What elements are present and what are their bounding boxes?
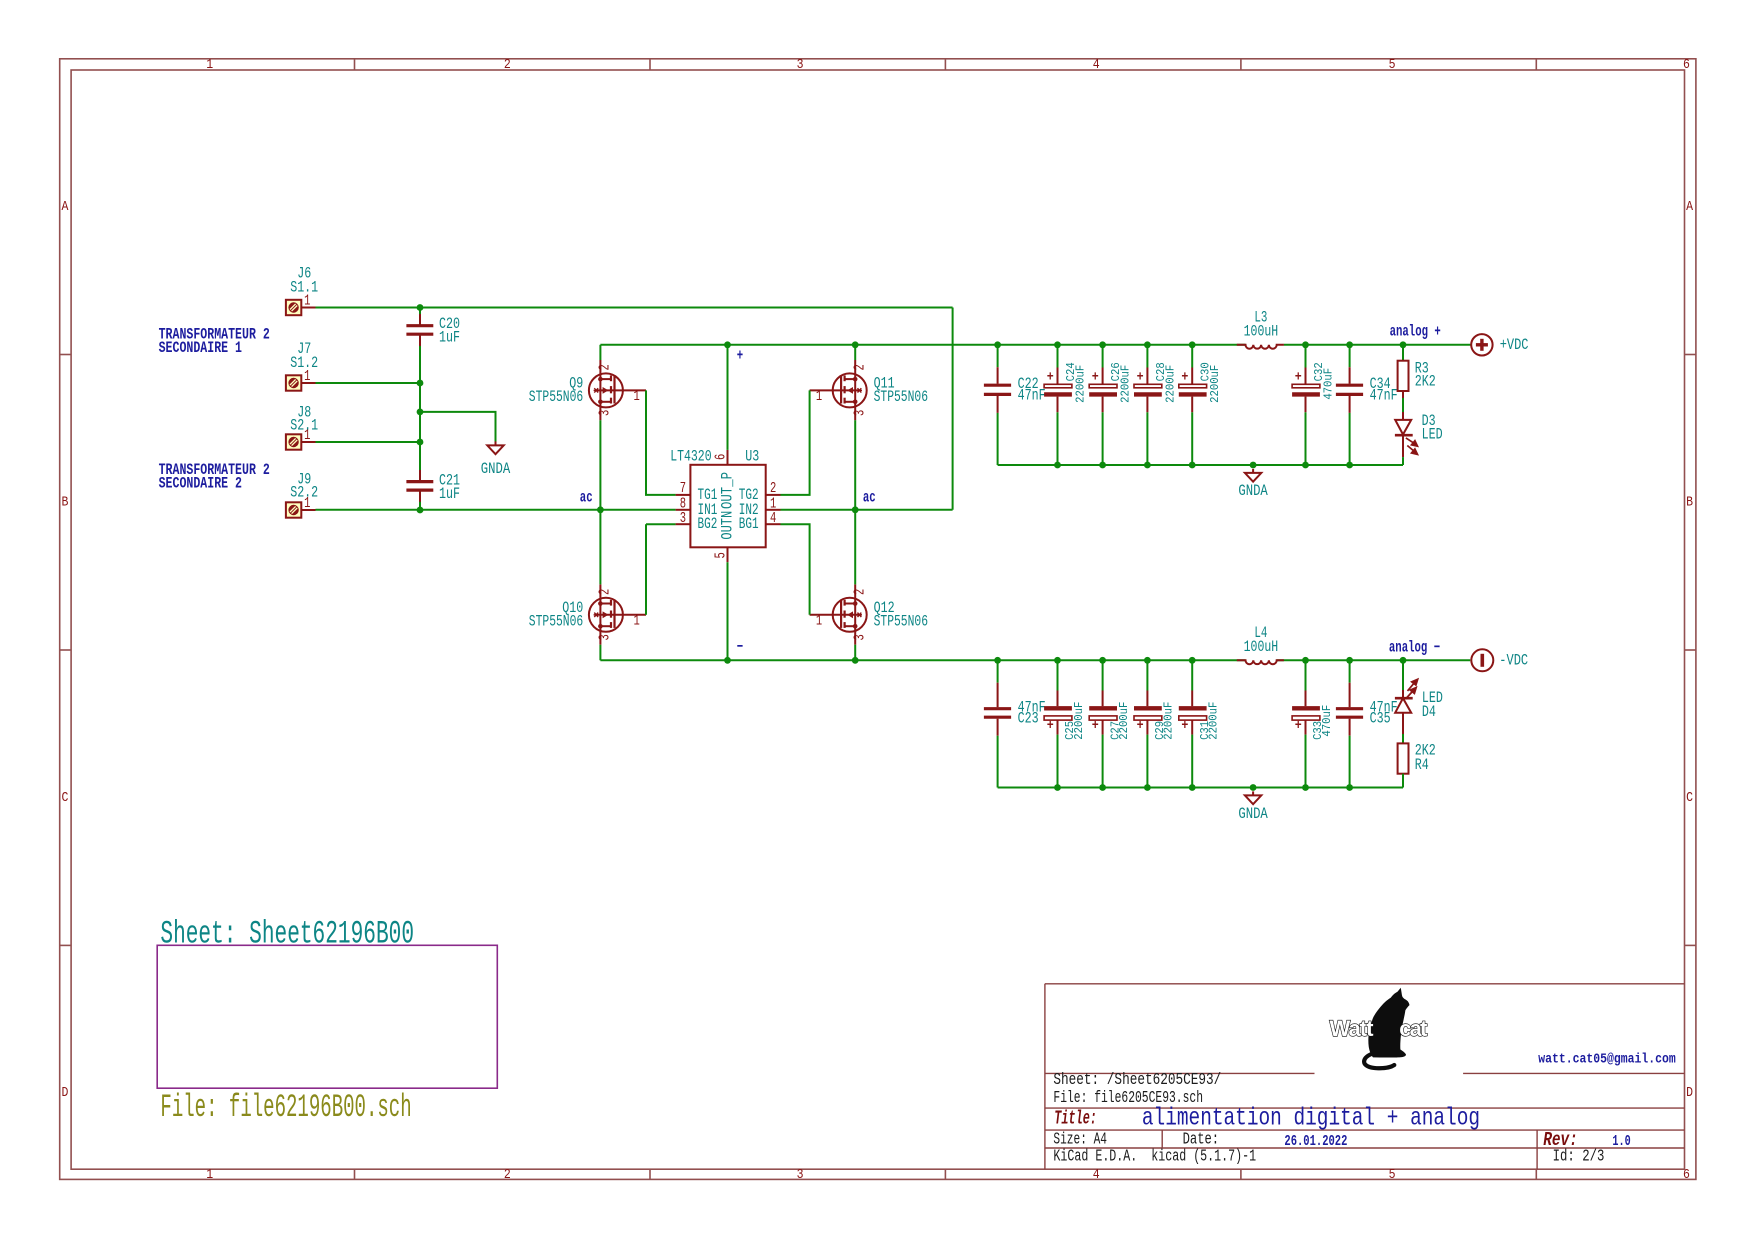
frame tick top <box>354 59 356 70</box>
frame tick bottom <box>1535 1169 1537 1179</box>
wire center column vertical (J6 to C20) <box>419 308 421 326</box>
capacitor C31 2200uF electrolytic polarized <box>1179 660 1207 787</box>
junction top-bank ground bus <box>1054 462 1061 469</box>
frame tick top <box>1535 59 1537 70</box>
svg-text:2200uF: 2200uF <box>1164 365 1177 403</box>
junction -bus <box>1400 657 1407 664</box>
wire - bus (right of L4) to -VDC <box>1277 659 1471 661</box>
svg-text:Title:: Title: <box>1054 1107 1097 1129</box>
wire center column vertical (C21 to J9) <box>419 490 421 510</box>
svg-text:+VDC: +VDC <box>1500 336 1529 354</box>
frame tick bottom <box>1240 1169 1242 1179</box>
svg-text:2200uF: 2200uF <box>1208 702 1221 740</box>
junction bottom-bank ground bus <box>1189 784 1196 791</box>
frame tick bottom <box>944 1169 946 1179</box>
capacitor C27 2200uF electrolytic polarized <box>1089 660 1117 787</box>
svg-text:watt.cat05@gmail.com: watt.cat05@gmail.com <box>1538 1052 1675 1068</box>
svg-text:2200uF: 2200uF <box>1209 365 1222 403</box>
capacitor C23 47nF ceramic <box>984 660 1011 787</box>
wire J6/S1.1 to right riser (net to IN2) <box>316 307 953 309</box>
svg-text:2200uF: 2200uF <box>1163 702 1176 740</box>
junction -bus <box>1189 657 1196 664</box>
svg-text:S1.1: S1.1 <box>290 279 318 297</box>
junction J6 wire / column <box>417 304 424 311</box>
junction GNDA branch <box>417 409 424 416</box>
svg-text:+: + <box>1295 718 1302 734</box>
frame tick left <box>60 944 71 946</box>
frame tick left <box>60 649 71 651</box>
junction +bus <box>1189 341 1196 348</box>
svg-text:D: D <box>1686 1085 1693 1101</box>
svg-text:Watt: Watt <box>1330 1016 1375 1041</box>
svg-text:GNDA: GNDA <box>1238 805 1268 823</box>
transistor Q10 STP55N06 N-MOSFET <box>589 584 646 644</box>
svg-text:Sheet: Sheet62196B00: Sheet: Sheet62196B00 <box>160 916 414 953</box>
svg-text:2: 2 <box>504 1167 511 1183</box>
svg-text:OUTN: OUTN <box>718 511 736 540</box>
junction top-bank ground bus <box>1189 462 1196 469</box>
junction bottom-bank ground bus <box>1346 784 1353 791</box>
capacitor C32 470uF electrolytic polarized <box>1292 345 1320 465</box>
wire Q9 source to Q10 drain (net ac left) <box>599 420 601 584</box>
svg-text:2200uF: 2200uF <box>1120 365 1133 403</box>
capacitor C29 2200uF electrolytic polarized <box>1134 660 1162 787</box>
svg-text:1: 1 <box>633 389 639 405</box>
junction top-bank ground bus <box>1144 462 1151 469</box>
capacitor C34 47nF ceramic <box>1336 345 1363 465</box>
svg-text:−: − <box>737 638 743 656</box>
svg-text:analog +: analog + <box>1390 323 1441 341</box>
hierarchical sheet box <box>157 945 497 1088</box>
svg-text:6: 6 <box>1683 57 1690 73</box>
junction top-bank ground bus <box>1250 462 1257 469</box>
junction +bus <box>1099 341 1106 348</box>
svg-text:7: 7 <box>680 481 686 497</box>
svg-text:2200uF: 2200uF <box>1073 702 1086 740</box>
junction OUT_P / +bus <box>724 341 731 348</box>
svg-text:S2.2: S2.2 <box>290 484 318 502</box>
capacitor C25 2200uF electrolytic polarized <box>1044 660 1072 787</box>
connector J6 screw terminal <box>286 300 316 315</box>
svg-text:LT4320: LT4320 <box>670 448 711 466</box>
frame tick bottom <box>354 1169 356 1179</box>
frame tick top <box>944 59 946 70</box>
connector J7 screw terminal <box>286 375 316 390</box>
wire IN2 to riser (net from J6) <box>781 509 953 511</box>
svg-text:3: 3 <box>680 511 686 527</box>
wire - bus (left of L4) <box>600 659 1245 661</box>
svg-text:BG1: BG1 <box>739 515 759 533</box>
junction +bus <box>1346 341 1353 348</box>
ground symbol GNDA (top bank) <box>1245 469 1261 482</box>
svg-text:470uF: 470uF <box>1321 705 1334 737</box>
svg-text:cat: cat <box>1399 1016 1428 1041</box>
svg-text:3: 3 <box>852 410 868 416</box>
svg-text:S2.1: S2.1 <box>290 417 318 435</box>
junction -bus <box>1302 657 1309 664</box>
svg-text:A: A <box>61 199 68 215</box>
svg-text:analog −: analog − <box>1389 638 1440 656</box>
svg-text:C35: C35 <box>1370 709 1391 727</box>
frame tick left <box>60 354 71 356</box>
svg-text:R4: R4 <box>1415 756 1429 774</box>
capacitor C20 <box>406 314 433 346</box>
svg-text:4: 4 <box>1093 57 1100 73</box>
ground symbol GNDA (near C20/C21) <box>487 441 503 454</box>
capacitor C22 47nF ceramic <box>984 345 1011 465</box>
svg-text:ac: ac <box>863 489 876 507</box>
junction bottom-bank ground bus <box>1144 784 1151 791</box>
svg-text:6: 6 <box>1683 1167 1690 1183</box>
inductor L4 100uH <box>1237 660 1284 664</box>
capacitor C33 470uF electrolytic polarized <box>1292 660 1320 787</box>
wire Q12 source to -bus <box>854 645 856 661</box>
LED D3 <box>1395 398 1418 457</box>
svg-text:2: 2 <box>504 57 511 73</box>
svg-text:SECONDAIRE 2: SECONDAIRE 2 <box>159 475 242 493</box>
capacitor C35 47nF ceramic <box>1336 660 1363 787</box>
power port -VDC <box>1471 649 1493 671</box>
junction -bus <box>1099 657 1106 664</box>
wire BG2 to Q10 gate <box>645 524 647 615</box>
svg-text:1: 1 <box>816 389 822 405</box>
wire + bus (left of L3) <box>600 344 1245 346</box>
svg-text:3: 3 <box>598 410 614 416</box>
svg-text:alimentation digital + analog: alimentation digital + analog <box>1142 1103 1480 1132</box>
junction J8 wire / column <box>417 439 424 446</box>
inductor L3 100uH <box>1237 345 1284 349</box>
svg-text:5: 5 <box>713 552 729 558</box>
capacitor C28 2200uF electrolytic polarized <box>1134 345 1162 465</box>
svg-text:5: 5 <box>1389 57 1396 73</box>
svg-text:+: + <box>1295 370 1302 386</box>
junction bottom-bank ground bus <box>1099 784 1106 791</box>
svg-text:C: C <box>1686 790 1693 806</box>
svg-text:B: B <box>61 494 68 510</box>
frame tick right <box>1685 649 1696 651</box>
svg-text:1: 1 <box>816 613 822 629</box>
resistor R3 2K2 <box>1398 345 1409 398</box>
svg-text:1uF: 1uF <box>439 329 460 347</box>
svg-text:+: + <box>1047 718 1054 734</box>
svg-text:1uF: 1uF <box>439 485 460 503</box>
svg-text:LED: LED <box>1422 426 1443 444</box>
svg-text:2200uF: 2200uF <box>1118 702 1131 740</box>
wire top-bank ground bus <box>998 464 1403 466</box>
capacitor C24 2200uF electrolytic polarized <box>1044 345 1072 465</box>
capacitor C21 <box>406 470 433 502</box>
frame tick right <box>1685 354 1696 356</box>
junction J7 wire / column <box>417 380 424 387</box>
wire OUTN to -bus <box>727 562 729 660</box>
junction ac left / Q9-Q10 <box>597 506 604 513</box>
transistor Q12 STP55N06 N-MOSFET <box>810 584 867 644</box>
svg-text:S1.2: S1.2 <box>290 354 318 372</box>
svg-text:2K2: 2K2 <box>1415 372 1436 390</box>
svg-text:BG2: BG2 <box>698 515 718 533</box>
frame tick bottom <box>649 1169 651 1179</box>
wire branch to GNDA <box>420 412 496 442</box>
junction top-bank ground bus <box>1346 462 1353 469</box>
junction bottom-bank ground bus <box>1302 784 1309 791</box>
junction +bus <box>1054 341 1061 348</box>
svg-text:2: 2 <box>598 364 614 370</box>
connector J8 screw terminal <box>286 434 316 449</box>
svg-text:Sheet: /Sheet6205CE93/: Sheet: /Sheet6205CE93/ <box>1053 1071 1221 1090</box>
svg-text:26.01.2022: 26.01.2022 <box>1284 1133 1347 1150</box>
svg-text:6: 6 <box>713 454 729 460</box>
wire riser down to IN2 line <box>952 308 954 510</box>
svg-text:D: D <box>61 1085 68 1101</box>
svg-text:-VDC: -VDC <box>1499 651 1528 669</box>
junction -bus <box>1054 657 1061 664</box>
wire J8/S2.1 to center column <box>316 441 421 443</box>
svg-text:Id: 2/3: Id: 2/3 <box>1553 1148 1605 1167</box>
junction ac right / Q11-Q12 <box>852 506 859 513</box>
svg-text:1: 1 <box>206 1167 213 1183</box>
svg-text:+: + <box>1181 370 1188 386</box>
title block frame <box>1045 984 1685 1169</box>
wire J9/S2.2 to IN1 (net ac) <box>316 509 676 511</box>
svg-text:Date:: Date: <box>1183 1130 1220 1149</box>
transistor Q9 STP55N06 N-MOSFET <box>589 360 646 420</box>
junction J9 wire / column <box>417 507 424 514</box>
svg-text:+: + <box>1092 718 1099 734</box>
svg-text:B: B <box>1686 494 1693 510</box>
svg-text:STP55N06: STP55N06 <box>874 388 928 406</box>
junction -bus <box>1144 657 1151 664</box>
junction +bus <box>1144 341 1151 348</box>
power port +VDC <box>1471 334 1492 355</box>
wire TG2 to Q11 gate <box>781 390 810 495</box>
junction -bus <box>994 657 1001 664</box>
svg-text:2: 2 <box>852 589 868 595</box>
junction top-bank ground bus <box>1302 462 1309 469</box>
svg-text:100uH: 100uH <box>1244 323 1279 341</box>
junction bottom-bank ground bus <box>1054 784 1061 791</box>
svg-text:3: 3 <box>598 634 614 640</box>
svg-text:STP55N06: STP55N06 <box>529 388 583 406</box>
svg-text:STP55N06: STP55N06 <box>874 612 928 630</box>
svg-text:5: 5 <box>1389 1167 1396 1183</box>
LED D4 <box>1395 660 1418 734</box>
svg-text:3: 3 <box>797 1167 804 1183</box>
junction bottom-bank ground bus <box>1250 784 1257 791</box>
svg-text:4: 4 <box>1093 1167 1100 1183</box>
svg-text:3: 3 <box>797 57 804 73</box>
junction Q11 / +bus <box>852 341 859 348</box>
capacitor C26 2200uF electrolytic polarized <box>1089 345 1117 465</box>
wire +bus to Q11 drain <box>854 345 856 360</box>
svg-text:STP55N06: STP55N06 <box>529 612 583 630</box>
svg-text:1: 1 <box>633 613 639 629</box>
capacitor C30 2200uF electrolytic polarized <box>1179 345 1207 465</box>
svg-text:C23: C23 <box>1018 709 1039 727</box>
junction +bus <box>994 341 1001 348</box>
wire + bus (right of L3) to +VDC <box>1284 344 1471 346</box>
wire J7/S1.2 to center column <box>316 382 421 384</box>
junction Q12 / -bus <box>852 657 859 664</box>
resistor R4 2K2 <box>1398 734 1409 788</box>
wire D3 cathode to ground bus <box>1402 457 1404 465</box>
svg-text:+: + <box>1137 370 1144 386</box>
svg-text:+: + <box>1047 370 1054 386</box>
wire BG2 stub link <box>646 523 676 525</box>
svg-text:Size: A4: Size: A4 <box>1053 1130 1107 1149</box>
svg-text:D4: D4 <box>1422 703 1436 721</box>
svg-text:OUT_P: OUT_P <box>718 472 736 509</box>
svg-text:100uH: 100uH <box>1244 638 1279 656</box>
transistor Q11 STP55N06 N-MOSFET <box>810 360 867 420</box>
junction -bus <box>1346 657 1353 664</box>
junction +bus <box>1400 341 1407 348</box>
svg-text:+: + <box>1137 718 1144 734</box>
svg-text:SECONDAIRE 1: SECONDAIRE 1 <box>159 339 242 357</box>
junction top-bank ground bus <box>1099 462 1106 469</box>
svg-text:47nF: 47nF <box>1018 387 1046 405</box>
frame tick top <box>649 59 651 70</box>
company logo Watt.cat (black cat silhouette with outlined text) <box>1330 988 1428 1068</box>
svg-text:3: 3 <box>852 634 868 640</box>
svg-text:2: 2 <box>770 481 776 497</box>
ground symbol GNDA (bottom bank) <box>1245 791 1261 804</box>
junction +bus <box>1302 341 1309 348</box>
junction OUTN / -bus <box>724 657 731 664</box>
frame tick top <box>1240 59 1242 70</box>
svg-text:KiCad E.D.A. kicad (5.1.7)-1: KiCad E.D.A. kicad (5.1.7)-1 <box>1053 1148 1256 1167</box>
wire Q11 source to Q12 drain (net ac right) <box>854 420 856 584</box>
svg-text:1.0: 1.0 <box>1612 1133 1630 1150</box>
svg-text:C: C <box>61 790 68 806</box>
wire Q10 source to -bus <box>599 645 601 661</box>
wire bottom-bank ground bus <box>998 787 1403 789</box>
connector J9 screw terminal <box>286 502 316 517</box>
wire center column vertical (C20 to C21) <box>419 334 421 481</box>
svg-text:470uF: 470uF <box>1322 368 1335 400</box>
wire Q9 gate to TG1 <box>646 390 676 495</box>
op-amp/IC U3 LT4320 ideal diode bridge controller <box>676 450 781 562</box>
svg-text:47nF: 47nF <box>1370 387 1398 405</box>
svg-text:U3: U3 <box>745 448 759 466</box>
svg-text:+: + <box>1181 718 1188 734</box>
svg-text:GNDA: GNDA <box>481 460 511 478</box>
svg-text:File: file62196B00.sch: File: file62196B00.sch <box>160 1089 411 1126</box>
svg-text:ac: ac <box>580 489 593 507</box>
svg-text:+: + <box>737 347 743 365</box>
wire +bus to Q9 drain <box>599 345 601 360</box>
wire OUT_P to +bus <box>727 345 729 450</box>
svg-text:2200uF: 2200uF <box>1074 365 1087 403</box>
wire BG1 to Q12 gate <box>781 524 810 615</box>
svg-text:GNDA: GNDA <box>1238 482 1268 500</box>
svg-text:4: 4 <box>770 511 776 527</box>
frame tick right <box>1685 944 1696 946</box>
svg-text:+: + <box>1092 370 1099 386</box>
svg-text:A: A <box>1686 199 1693 215</box>
svg-text:2: 2 <box>598 589 614 595</box>
svg-text:2: 2 <box>852 364 868 370</box>
svg-text:1: 1 <box>206 57 213 73</box>
